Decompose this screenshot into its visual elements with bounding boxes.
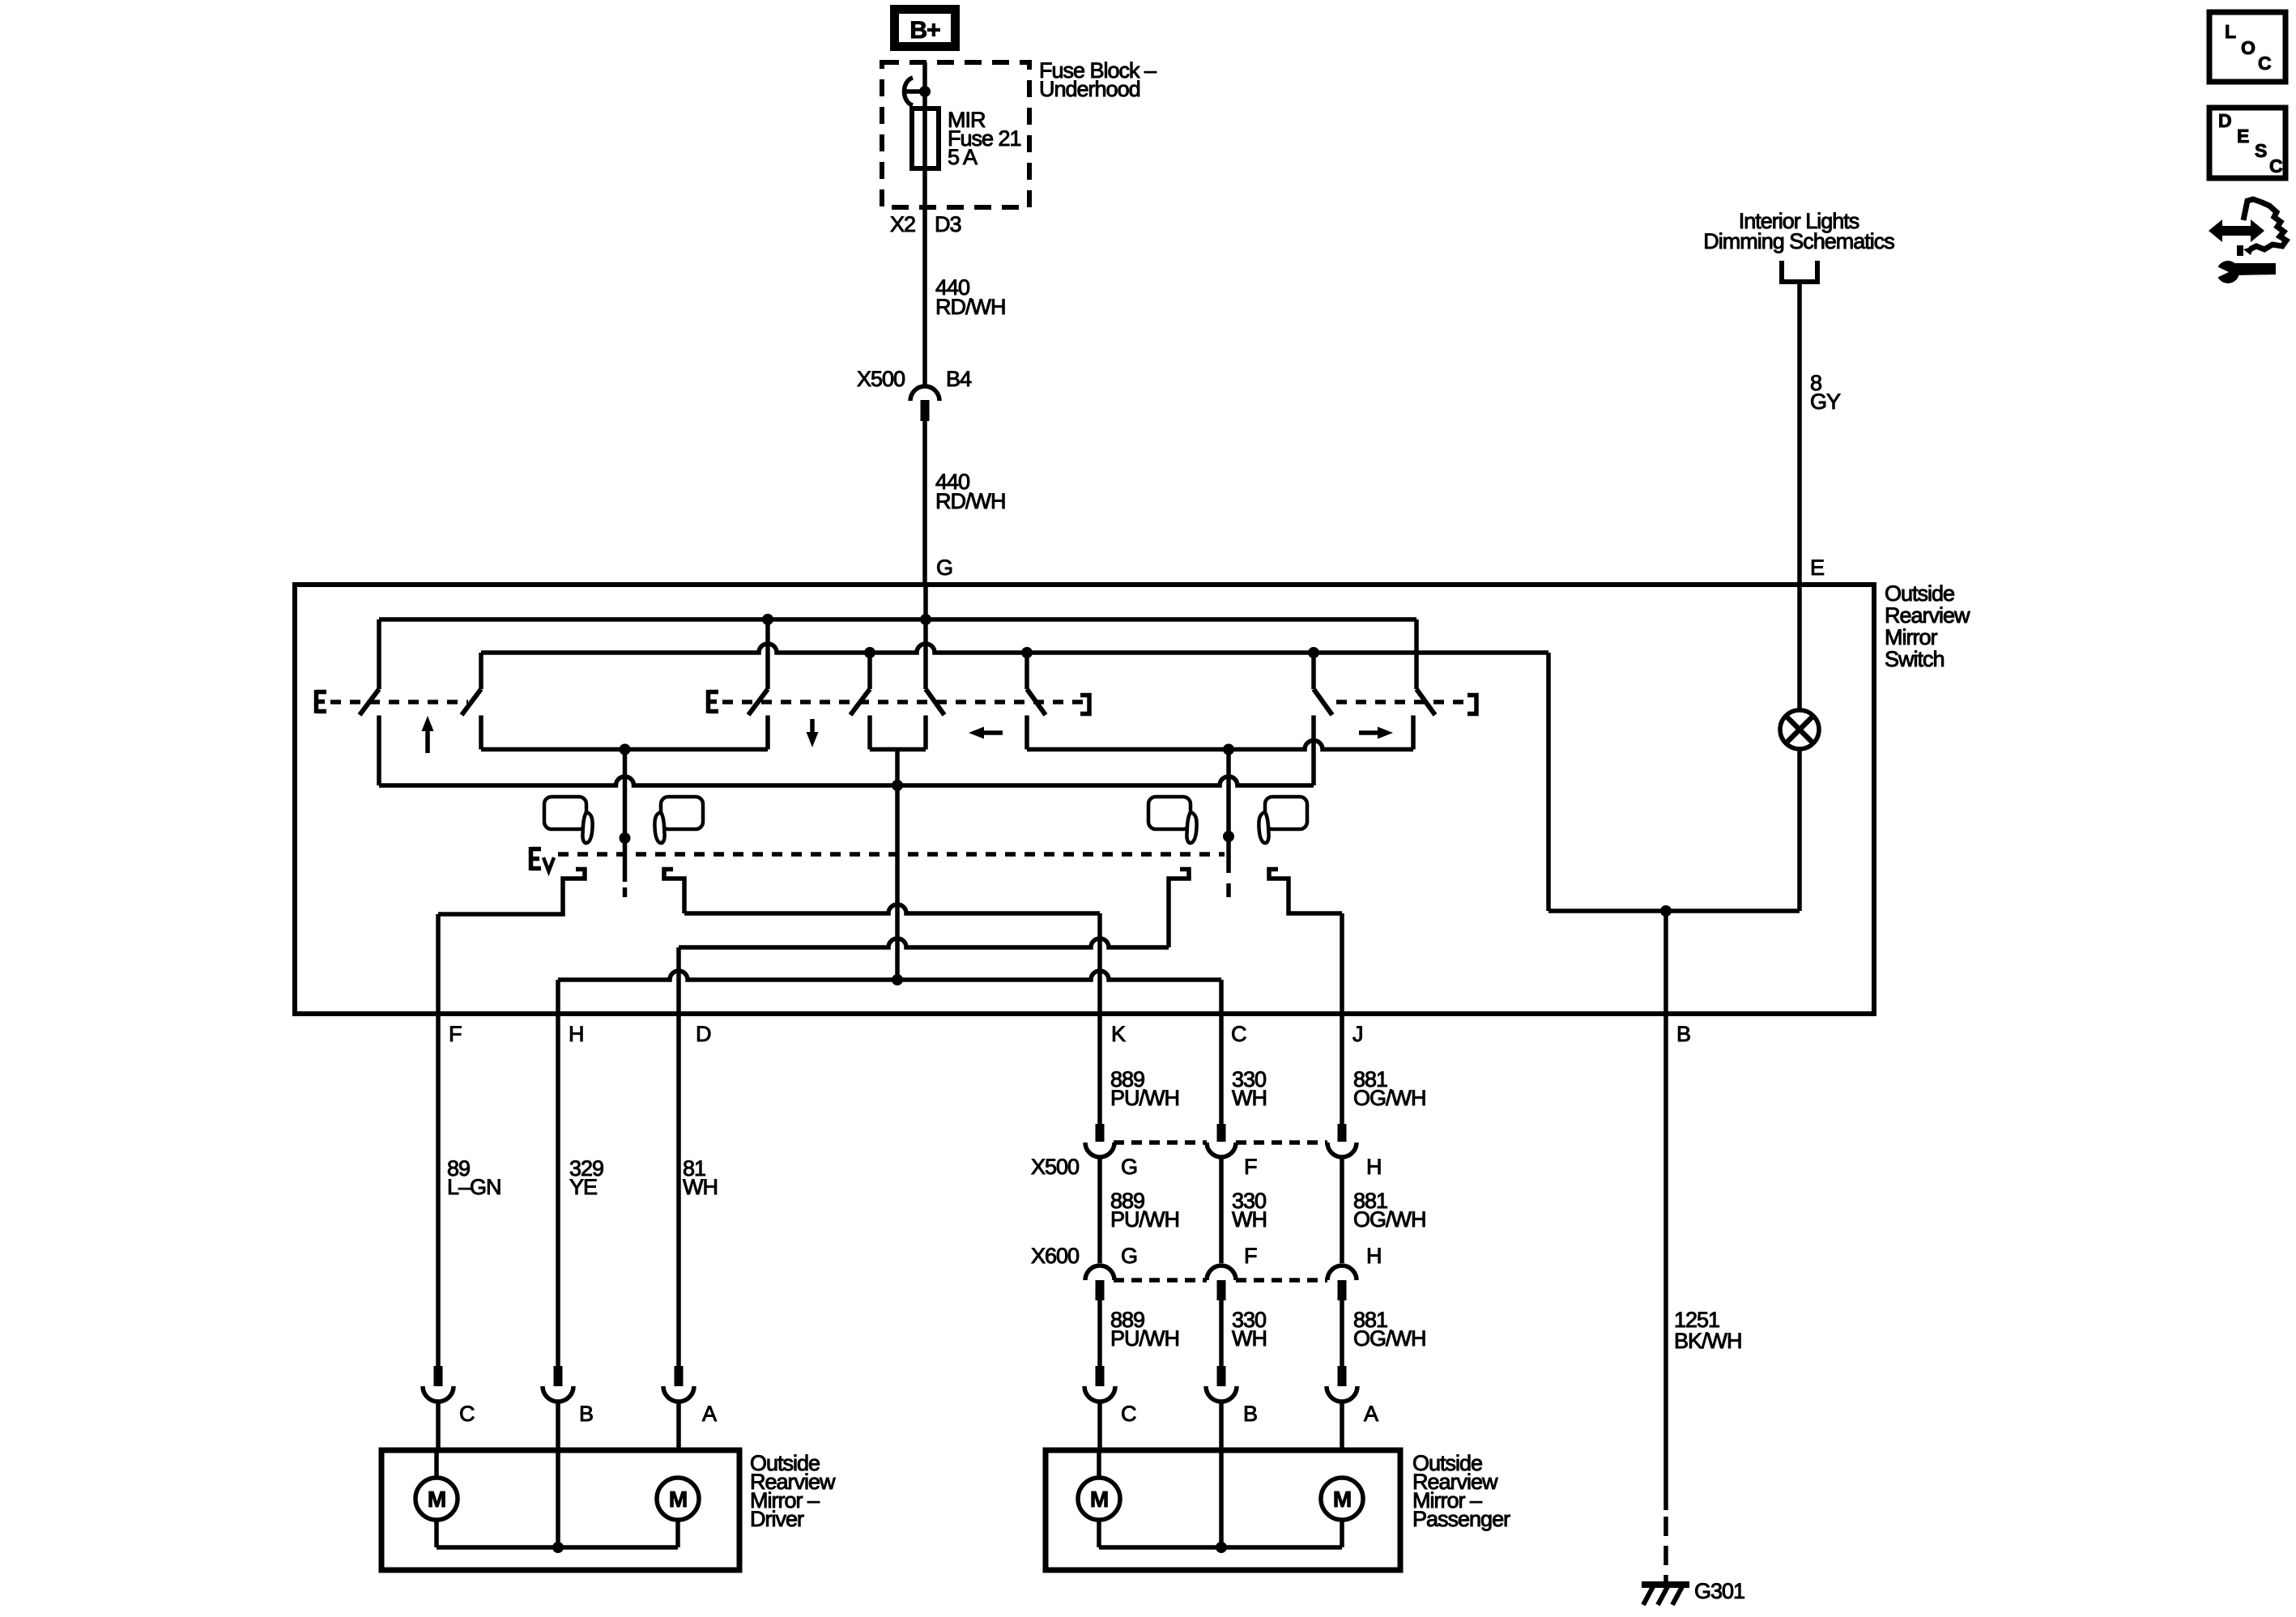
- svg-text:A: A: [1364, 1402, 1378, 1426]
- svg-text:O: O: [2241, 37, 2255, 58]
- svg-text:F: F: [1244, 1155, 1257, 1179]
- svg-text:E: E: [2237, 126, 2249, 147]
- svg-text:G301: G301: [1694, 1579, 1744, 1603]
- svg-text:OG/WH: OG/WH: [1353, 1086, 1426, 1110]
- svg-text:B: B: [579, 1402, 593, 1426]
- svg-text:X2: X2: [890, 212, 915, 236]
- svg-text:PU/WH: PU/WH: [1110, 1086, 1179, 1110]
- svg-text:H: H: [1366, 1244, 1382, 1268]
- svg-text:H: H: [569, 1022, 584, 1046]
- svg-text:YE: YE: [569, 1175, 597, 1199]
- svg-text:F: F: [449, 1022, 462, 1046]
- svg-text:X500: X500: [1031, 1155, 1079, 1179]
- svg-text:BK/WH: BK/WH: [1674, 1329, 1742, 1353]
- svg-text:G: G: [1121, 1155, 1137, 1179]
- svg-text:PU/WH: PU/WH: [1110, 1326, 1179, 1351]
- svg-text:WH: WH: [1232, 1326, 1267, 1351]
- svg-text:Mirror: Mirror: [1885, 625, 1937, 649]
- svg-text:E: E: [1810, 555, 1824, 580]
- svg-text:F: F: [1244, 1244, 1257, 1268]
- svg-text:G: G: [936, 555, 952, 580]
- svg-text:5 A: 5 A: [948, 145, 978, 169]
- svg-text:Driver: Driver: [750, 1507, 804, 1531]
- svg-text:GY: GY: [1810, 389, 1841, 414]
- svg-text:B: B: [1676, 1022, 1690, 1046]
- svg-text:X500: X500: [857, 367, 905, 391]
- svg-text:OG/WH: OG/WH: [1353, 1207, 1426, 1232]
- svg-text:WH: WH: [683, 1175, 718, 1199]
- svg-text:X600: X600: [1031, 1244, 1079, 1268]
- svg-text:B: B: [1243, 1402, 1257, 1426]
- svg-text:B4: B4: [946, 367, 972, 391]
- svg-text:H: H: [1366, 1155, 1382, 1179]
- svg-text:Outside: Outside: [1885, 581, 1954, 606]
- svg-text:D3: D3: [935, 212, 961, 236]
- svg-text:M: M: [1090, 1487, 1108, 1512]
- svg-text:RD/WH: RD/WH: [935, 489, 1005, 513]
- svg-text:L: L: [2225, 21, 2236, 42]
- svg-text:D: D: [696, 1022, 711, 1046]
- svg-text:OG/WH: OG/WH: [1353, 1326, 1426, 1351]
- svg-text:M: M: [669, 1487, 687, 1512]
- svg-text:C: C: [459, 1402, 475, 1426]
- svg-text:L–GN: L–GN: [447, 1175, 501, 1199]
- svg-text:Dimming Schematics: Dimming Schematics: [1703, 229, 1894, 253]
- svg-text:C: C: [2269, 155, 2282, 177]
- svg-text:B+: B+: [909, 17, 940, 44]
- svg-text:Underhood: Underhood: [1039, 77, 1140, 101]
- svg-text:A: A: [702, 1402, 717, 1426]
- svg-text:Passenger: Passenger: [1412, 1507, 1510, 1531]
- svg-text:WH: WH: [1232, 1086, 1267, 1110]
- svg-text:J: J: [1352, 1022, 1363, 1046]
- svg-text:M: M: [1333, 1487, 1351, 1512]
- svg-text:C: C: [2258, 53, 2271, 74]
- svg-text:Rearview: Rearview: [1885, 603, 1970, 628]
- svg-text:C: C: [1121, 1402, 1136, 1426]
- svg-text:M: M: [428, 1487, 445, 1512]
- svg-text:D: D: [2218, 110, 2231, 131]
- svg-text:PU/WH: PU/WH: [1110, 1207, 1179, 1232]
- svg-text:K: K: [1111, 1022, 1126, 1046]
- svg-text:WH: WH: [1232, 1207, 1267, 1232]
- svg-text:C: C: [1231, 1022, 1246, 1046]
- svg-text:G: G: [1121, 1244, 1137, 1268]
- svg-text:RD/WH: RD/WH: [935, 295, 1005, 319]
- svg-text:Switch: Switch: [1885, 647, 1945, 671]
- svg-text:S: S: [2255, 140, 2267, 161]
